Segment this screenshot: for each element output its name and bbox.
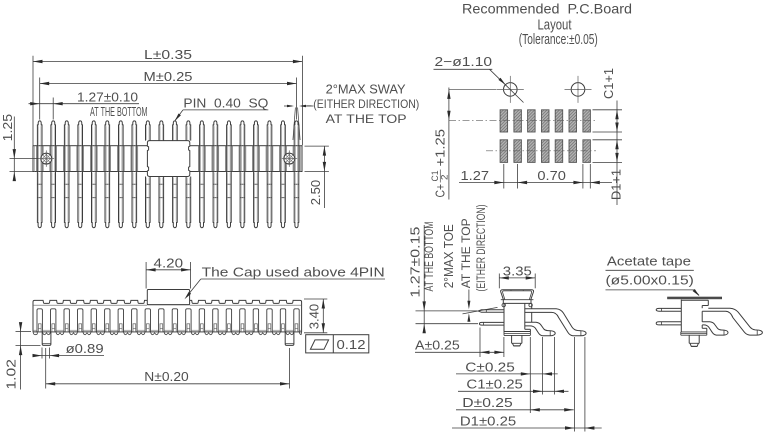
svg-text:AT THE TOP: AT THE TOP <box>461 218 473 288</box>
dim 4.20 ext lines <box>146 262 191 289</box>
retention hooks (middle view) <box>502 303 532 306</box>
svg-text:PIN 0.40 SQ: PIN 0.40 SQ <box>183 96 268 111</box>
dim dia0.89 line <box>33 354 105 357</box>
dim C1+1 ext lines <box>593 110 623 132</box>
svg-text:3.40: 3.40 <box>307 304 322 330</box>
right post <box>285 332 294 346</box>
svg-text:(EITHER DIRECTION): (EITHER DIRECTION) <box>476 204 488 291</box>
cap (side view) <box>147 290 189 305</box>
svg-text:The Cap used above 4PIN: The Cap used above 4PIN <box>202 264 385 279</box>
body hatch lines <box>36 146 299 172</box>
flatness frame <box>306 335 369 353</box>
svg-text:Recommended P.C.Board: Recommended P.C.Board <box>462 1 632 17</box>
dim 1.27 row ext lines <box>416 311 479 324</box>
flatness symbol <box>310 340 328 349</box>
svg-text:(ø5.00x0.15): (ø5.00x0.15) <box>606 272 694 287</box>
svg-text:AT THE BOTTOM: AT THE BOTTOM <box>424 222 436 292</box>
dim toe line <box>467 290 470 322</box>
dim 1.27 line <box>29 102 140 105</box>
acetate peg <box>689 335 699 346</box>
svg-text:2°MAX TOE: 2°MAX TOE <box>441 224 456 288</box>
left pin row2 (middle view) <box>479 322 504 325</box>
svg-text:Acetate tape: Acetate tape <box>607 253 691 268</box>
left pin row1 (middle view) <box>478 310 504 313</box>
dim A ext lines <box>480 328 504 358</box>
svg-text:D1+1: D1+1 <box>609 169 624 200</box>
dim C+C1/2+1.25 line <box>447 88 450 200</box>
pad row 2 (pcb) <box>500 140 590 163</box>
bottom peg (middle view) <box>512 335 522 346</box>
dim 1.27 row line <box>423 225 426 333</box>
dim 0.70 ext lines <box>583 164 590 189</box>
dim 0.70 arrows <box>573 181 599 184</box>
mounting hole left (front view) <box>33 145 60 172</box>
svg-text:1.27: 1.27 <box>461 168 490 183</box>
cap (front view) <box>147 141 189 177</box>
svg-text:0.12: 0.12 <box>337 337 366 352</box>
svg-text:D1±0.25: D1±0.25 <box>460 413 516 428</box>
lower pins (front view) <box>37 172 298 228</box>
svg-text:0.70: 0.70 <box>537 168 566 183</box>
dim C1 line <box>458 390 569 393</box>
svg-text:1.27±0.10: 1.27±0.10 <box>77 89 138 104</box>
svg-text:2: 2 <box>440 175 451 181</box>
svg-text:ø0.89: ø0.89 <box>66 341 104 356</box>
dim N line <box>46 382 290 385</box>
upper pins (front view) <box>37 121 298 146</box>
stack ext line C/D left <box>529 337 531 413</box>
neck (middle view) <box>503 300 531 304</box>
dim C1+1 line <box>615 101 618 206</box>
svg-text:AT THE TOP: AT THE TOP <box>326 112 407 126</box>
right pin row1 long bend (middle view) <box>525 309 586 336</box>
body flange (middle view) <box>504 332 530 336</box>
acetate flange <box>681 332 707 335</box>
acetate left pin row1 <box>656 308 681 311</box>
acetate right pin row1 long <box>702 308 762 335</box>
dim 4.20 line <box>146 268 191 271</box>
sway envelope lines <box>293 108 300 141</box>
dim 1.27 pcb line <box>459 181 612 184</box>
dim L ext lines <box>33 56 302 145</box>
tape leader <box>693 289 700 296</box>
svg-text:1.02: 1.02 <box>3 359 18 389</box>
dim N ext lines <box>46 348 290 389</box>
sway dim arrows <box>284 105 314 107</box>
acetate body <box>681 300 708 332</box>
dim L line <box>33 60 302 63</box>
dim dia0.89 ext lines <box>42 348 50 359</box>
sway leader <box>307 105 312 107</box>
svg-text:C1±0.25: C1±0.25 <box>466 377 523 392</box>
hole circle left (pcb) <box>497 76 524 103</box>
dim 1.02 line <box>19 322 22 389</box>
svg-text:3.35: 3.35 <box>503 263 532 278</box>
dim 3.35 line <box>499 276 535 279</box>
pad row 2 centerline <box>486 150 596 152</box>
dim 1.27 pcb ext lines <box>504 164 518 189</box>
dim 3.40 line <box>322 299 325 333</box>
pin seat lines (side view) <box>33 329 302 331</box>
svg-text:AT THE BOTTOM: AT THE BOTTOM <box>90 105 148 119</box>
svg-text:D±0.25: D±0.25 <box>462 395 512 410</box>
svg-text:2−ø1.10: 2−ø1.10 <box>435 54 493 69</box>
dim C line <box>456 372 558 375</box>
bottom lip scallops (side view) <box>33 332 302 335</box>
dim D1+1 ext lines <box>593 140 623 163</box>
svg-text:C1+1: C1+1 <box>601 68 616 99</box>
hole circle right (pcb) <box>565 76 592 103</box>
mounting hole right (front view) <box>276 145 303 172</box>
left post <box>42 332 51 346</box>
dim 1.02 ext lines <box>16 332 41 346</box>
text tape size <box>606 272 695 290</box>
svg-text:(Tolerance:±0.05): (Tolerance:±0.05) <box>519 32 598 48</box>
toe envelope line <box>463 307 498 314</box>
pad row 1 (pcb) <box>500 110 590 132</box>
hole centerline <box>449 88 496 90</box>
svg-text:A±0.25: A±0.25 <box>415 338 460 353</box>
acetate left pin row2 <box>656 322 681 325</box>
leader PIN 0.40 SQ <box>175 110 269 121</box>
leader 2-dia1.10 <box>490 69 524 102</box>
dim 2.50 ext lines <box>305 146 329 171</box>
body outline (side view) <box>33 300 302 332</box>
label 2-dia1.10 <box>434 54 493 69</box>
dim D1 line <box>452 426 602 429</box>
dim 3.40 ext lines <box>304 299 327 333</box>
dim D line <box>456 408 574 411</box>
body bottom line (side view) <box>33 331 302 333</box>
body chamfer line (side view) <box>33 304 302 306</box>
right pin row2 short bend (middle view) <box>525 322 555 336</box>
svg-text:1.25: 1.25 <box>0 114 15 142</box>
acetate right pin row2 short <box>702 322 728 335</box>
text acetate tape <box>606 253 694 270</box>
svg-text:+1.25: +1.25 <box>432 129 447 167</box>
stack ext lines D1 <box>575 337 585 432</box>
pad row 1 centerline <box>449 119 596 121</box>
dim A line <box>415 351 504 354</box>
svg-text:M±0.25: M±0.25 <box>144 69 193 84</box>
stack ext lines C1 <box>543 337 555 395</box>
svg-text:1.27±0.15: 1.27±0.15 <box>408 227 423 298</box>
svg-text:2°MAX SWAY: 2°MAX SWAY <box>326 82 406 97</box>
svg-text:(EITHER DIRECTION): (EITHER DIRECTION) <box>313 97 419 111</box>
svg-text:C±0.25: C±0.25 <box>465 359 515 374</box>
cap leader <box>185 279 386 299</box>
dim C+C1/2+1.25 text <box>430 129 451 198</box>
dim 1.25 ext lines <box>10 159 39 172</box>
acetate tape bar <box>668 297 722 299</box>
svg-text:L±0.35: L±0.35 <box>144 47 192 62</box>
header body (front view) <box>33 146 302 172</box>
dim 3.35 ext lines <box>499 274 535 289</box>
pickup cap outline (middle view) <box>501 290 534 300</box>
dim M line <box>40 82 297 85</box>
dim 2.50 line <box>323 146 326 208</box>
svg-text:N±0.20: N±0.20 <box>144 369 188 384</box>
pin slots (side view) <box>37 309 299 332</box>
svg-text:C+: C+ <box>432 184 447 198</box>
body column (middle view) <box>504 303 532 331</box>
svg-text:4.20: 4.20 <box>154 255 184 270</box>
dim 1.25 line <box>13 117 16 182</box>
dim M ext lines <box>40 78 297 120</box>
svg-text:2.50: 2.50 <box>308 180 323 206</box>
dim 1.27 ext line <box>52 98 54 120</box>
